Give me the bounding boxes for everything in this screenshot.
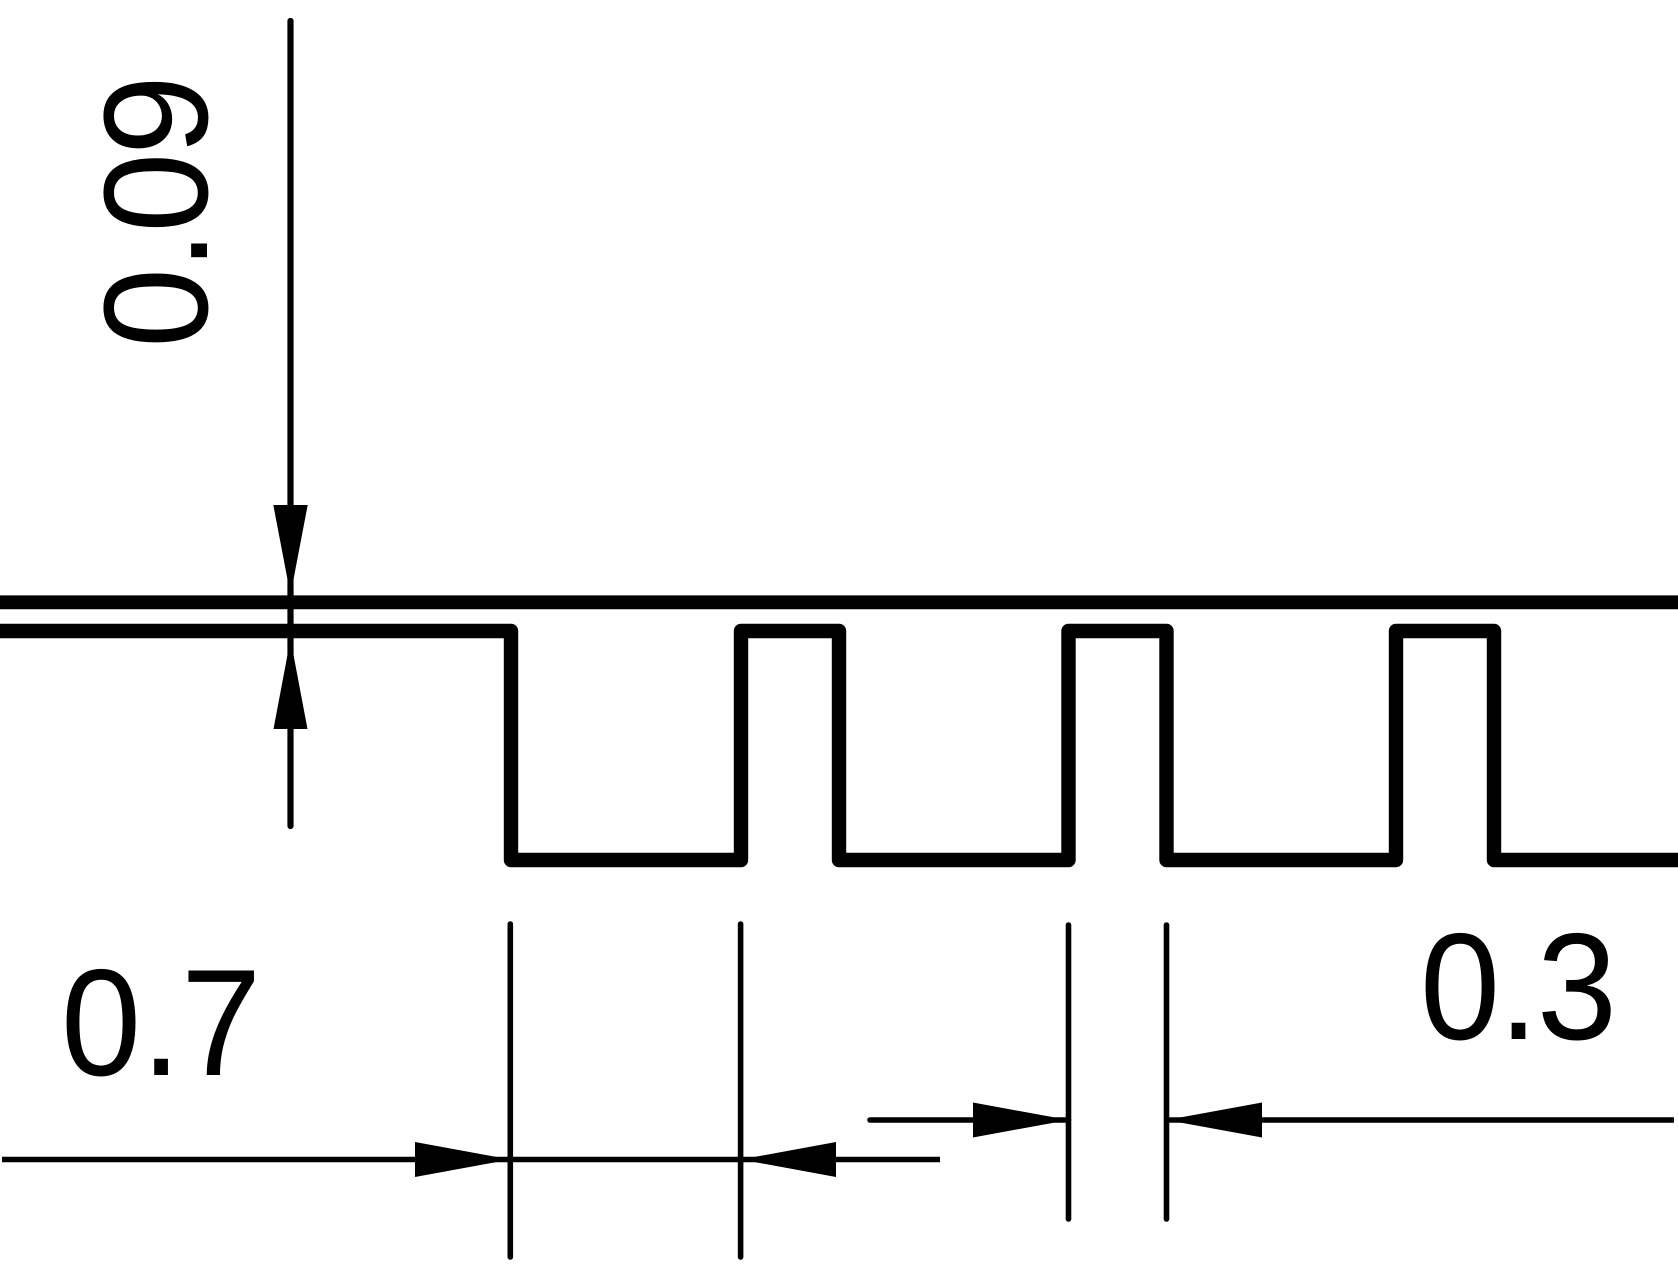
0.09 dimension leader line — [287, 21, 293, 826]
top surface line (0.09 layer) — [0, 595, 1678, 609]
0.7 extension line right — [738, 924, 744, 1257]
svg-text:0.3: 0.3 — [1420, 902, 1617, 1071]
0.7 arrowhead pointing left — [741, 1142, 836, 1177]
0.3 extension line right — [1164, 925, 1170, 1219]
0.3 dimension line right segment — [1167, 1117, 1675, 1123]
0.09 bottom arrowhead (up) — [274, 639, 308, 729]
0.09 top arrowhead (down) — [273, 505, 307, 595]
svg-text:0.09: 0.09 — [73, 75, 238, 348]
slotted profile outline — [0, 631, 1678, 860]
0.3 extension line left — [1066, 925, 1072, 1219]
0.7 dimension line — [2, 1157, 940, 1163]
svg-text:0.7: 0.7 — [61, 938, 261, 1107]
0.3 arrowhead pointing left — [1167, 1103, 1263, 1138]
0.3 arrowhead pointing right — [973, 1103, 1069, 1138]
0.3 dimension line left segment — [870, 1117, 1069, 1123]
0.7 arrowhead pointing right — [415, 1142, 510, 1177]
0.7 extension line left — [507, 924, 513, 1257]
